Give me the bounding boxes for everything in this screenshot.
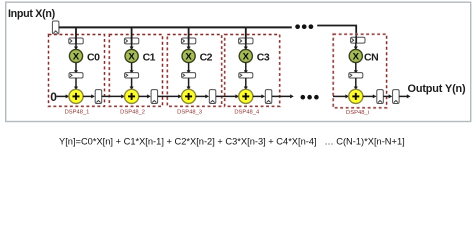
register output reg <box>393 90 400 104</box>
svg-text:DSP48_3: DSP48_3 <box>177 110 202 116</box>
svg-text:DSP48_1: DSP48_1 <box>65 110 90 116</box>
register DSP48_1 input reg A <box>69 38 83 44</box>
DSP48 slice boundary DSP48_4 <box>225 35 280 107</box>
border frame <box>6 2 471 121</box>
wire reg P to output register <box>383 94 392 98</box>
wire multiplier to pipeline reg M (DSP48_2) <box>130 63 134 74</box>
wire adder to reg P (DSP48_i) <box>363 94 377 98</box>
wire input bus X(n) <box>59 26 292 28</box>
adder + (DSP48_3) <box>182 89 196 103</box>
register DSP48_4 cascade reg P <box>265 90 272 104</box>
wire reg A to multiplier DSP48_4 <box>244 44 248 50</box>
wire multiplier to pipeline reg M (DSP48_3) <box>187 63 191 74</box>
register DSP48_4 input reg A <box>239 38 253 44</box>
svg-text:DSP48_i: DSP48_i <box>346 110 369 116</box>
svg-text:Y[n]=C0*X[n] + C1*X[n-1] + C2*: Y[n]=C0*X[n] + C1*X[n-1] + C2*X[n-2] + C… <box>59 136 405 146</box>
wire PCOUT DSP48_3 to next adder <box>216 94 239 98</box>
multiplier X (DSP48_3) <box>182 49 195 62</box>
register DSP48_1 cascade reg P <box>95 90 102 104</box>
svg-text:DSP48_2: DSP48_2 <box>120 110 145 116</box>
ellipsis dots (top bus) <box>295 24 313 29</box>
DSP48 slice boundary DSP48_i <box>333 34 386 108</box>
wire cascade into DSP48_i adder <box>333 94 349 98</box>
wire reg M to adder (DSP48_i) <box>354 78 358 90</box>
register DSP48_3 pipeline reg M <box>182 73 196 78</box>
multiplier X (DSP48_i) <box>349 49 362 62</box>
register DSP48_4 pipeline reg M <box>239 73 253 78</box>
multiplier X (DSP48_4) <box>239 49 252 62</box>
svg-text:C2: C2 <box>200 51 213 63</box>
wire PCOUT DSP48_1 to next adder <box>102 94 125 98</box>
wire reg A to multiplier DSP48_3 <box>187 44 191 50</box>
register DSP48_2 input reg A <box>124 38 138 44</box>
wire multiplier to pipeline reg M (DSP48_i) <box>354 63 358 74</box>
svg-text:C3: C3 <box>257 51 270 63</box>
wire bus to DSP48_i <box>317 26 356 40</box>
svg-text:X: X <box>243 52 250 63</box>
wire adder to cascade reg P (DSP48_2) <box>139 94 151 98</box>
wire output Y(n) <box>399 94 410 98</box>
wire PCOUT DSP48_2 to next adder <box>158 94 182 98</box>
svg-text:X: X <box>128 52 135 63</box>
svg-text:C1: C1 <box>143 51 156 63</box>
svg-text:X: X <box>185 52 192 63</box>
register DSP48_3 cascade reg P <box>209 90 216 104</box>
wire reg M to adder (DSP48_2) <box>130 78 134 90</box>
wire PCOUT DSP48_4 to ellipsis <box>272 94 294 98</box>
svg-text:X: X <box>73 52 80 63</box>
wire bus tap into DSP48_2 <box>131 27 133 44</box>
multiplier X (DSP48_2) <box>125 49 138 62</box>
svg-text:Output Y(n): Output Y(n) <box>408 83 467 95</box>
wire bus tap into DSP48_3 <box>188 27 190 44</box>
register DSP48_i input reg A <box>351 37 365 43</box>
adder + (DSP48_2) <box>125 89 139 103</box>
svg-text:X: X <box>353 52 360 63</box>
wire adder to cascade reg P (DSP48_4) <box>253 94 265 98</box>
register DSP48_2 cascade reg P <box>151 90 158 104</box>
adder + (DSP48_1) <box>69 89 83 103</box>
wire adder to cascade reg P (DSP48_3) <box>196 94 209 98</box>
wire bus tap into DSP48_1 <box>75 27 77 44</box>
wire reg A to multiplier DSP48_2 <box>130 44 134 50</box>
svg-text:Input X(n): Input X(n) <box>8 8 56 20</box>
wire multiplier to pipeline reg M (DSP48_4) <box>244 63 248 74</box>
wire reg A to multiplier (DSP48_i) <box>354 43 358 50</box>
wire tap through reg A (DSP48_i) <box>355 37 357 43</box>
wire bus tap into DSP48_4 <box>245 27 247 44</box>
wire reg M to adder (DSP48_1) <box>74 78 78 90</box>
svg-text:C0: C0 <box>87 51 100 63</box>
DSP48 slice boundary DSP48_1 <box>49 35 105 107</box>
register DSP48_i cascade reg P <box>377 90 384 104</box>
register DSP48_2 pipeline reg M <box>125 73 139 78</box>
DSP48 slice boundary DSP48_3 <box>167 35 221 107</box>
wire 0 to adder DSP48_1 <box>57 94 70 98</box>
wire adder to cascade reg P (DSP48_1) <box>83 94 95 98</box>
register DSP48_1 pipeline reg M <box>69 73 83 78</box>
wire reg M to adder (DSP48_4) <box>244 78 248 90</box>
multiplier X (DSP48_1) <box>69 49 82 62</box>
register DSP48_3 input reg A <box>181 38 195 44</box>
register REG_IN (input register) <box>52 21 59 34</box>
wire reg M to adder (DSP48_3) <box>187 78 191 90</box>
svg-text:0: 0 <box>50 90 57 104</box>
ellipsis dots (cascade chain) <box>301 95 319 100</box>
register DSP48_i pipeline reg M <box>349 73 363 78</box>
adder + (DSP48_4) <box>239 89 253 103</box>
svg-text:DSP48_4: DSP48_4 <box>234 110 260 116</box>
wire reg A to multiplier DSP48_1 <box>74 44 78 50</box>
wire multiplier to pipeline reg M (DSP48_1) <box>74 63 78 74</box>
adder + (DSP48_i) <box>349 89 363 103</box>
DSP48 slice boundary DSP48_2 <box>109 35 162 107</box>
svg-text:CN: CN <box>364 51 378 63</box>
